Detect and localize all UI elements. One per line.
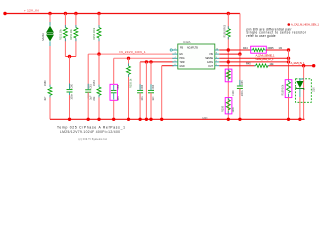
svg-text:D10: D10 — [313, 87, 316, 92]
svg-text:R155 1k: R155 1k — [130, 78, 133, 88]
wire column 162 down — [161, 66, 163, 120]
node sense/pin10 — [227, 48, 230, 51]
svg-text:R152 10k: R152 10k — [70, 29, 73, 40]
svg-text:GND: GND — [180, 66, 185, 68]
capacitor C61 — [85, 84, 91, 99]
svg-text:R153 100k: R153 100k — [93, 27, 96, 40]
node diode bottom at bus — [298, 118, 301, 121]
wire divider column 99 — [98, 14, 100, 28]
svg-text:+ 12V_IN: + 12V_IN — [24, 8, 39, 12]
svg-text:C61: C61 — [89, 84, 92, 89]
resistor R152 — [74, 28, 78, 39]
svg-text:PRG: PRG — [180, 58, 185, 60]
svg-text:1k00: 1k00 — [232, 106, 235, 112]
node divider tap — [97, 52, 100, 55]
wire pin8 row — [219, 53, 240, 55]
resistor R160 — [48, 87, 52, 95]
svg-text:R44: R44 — [243, 47, 248, 50]
svg-text:1uF: 1uF — [89, 95, 92, 100]
capacitor C60 — [67, 84, 73, 99]
svg-text:C60: C60 — [71, 83, 74, 88]
resistor R158 box2 (highlighted) — [225, 98, 232, 114]
svg-text:VIN: VIN — [209, 54, 213, 56]
node pin7 row end — [287, 60, 290, 63]
svg-text:R45: R45 — [246, 63, 251, 66]
wire pin5 row with R45 — [219, 65, 255, 67]
svg-text:SA24A: SA24A — [42, 33, 45, 41]
svg-text:refer to user guide: refer to user guide — [247, 34, 276, 38]
svg-text:Temp 025 C/Phase A RefPass_1: Temp 025 C/Phase A RefPass_1 — [57, 126, 125, 130]
node row4 col 146 — [145, 60, 148, 63]
wire diode column — [303, 66, 305, 120]
wire drop from join — [69, 57, 71, 89]
node rail left end — [3, 12, 6, 15]
node out sense top — [287, 48, 290, 51]
capacitor C63 — [137, 84, 143, 99]
wire pin7 row — [219, 61, 288, 63]
wire pin10 row — [219, 49, 251, 51]
svg-text:GND: GND — [202, 117, 208, 120]
wire R44 to node — [266, 49, 288, 51]
svg-text:C64: C64 — [152, 84, 155, 89]
resistor R155 on row3 drop — [128, 58, 130, 66]
wire row2 from corner x88 — [88, 53, 173, 55]
wire VIN column continues — [239, 54, 241, 85]
capacitor C62 (highlighted) — [110, 84, 117, 100]
svg-text:EN: EN — [180, 54, 184, 56]
svg-text:FB: FB — [180, 46, 183, 49]
node VIN — [238, 52, 241, 55]
svg-text:C62: C62 — [117, 84, 120, 89]
wire TVS column top — [49, 14, 51, 26]
IC U42 hot-swap controller — [178, 40, 215, 69]
wire column 65 — [64, 14, 66, 28]
wire row3 from cap column corner — [114, 57, 174, 59]
svg-text:OUT: OUT — [208, 66, 213, 68]
svg-text:LM25/12V79.1024F 400Ft=12/400: LM25/12V79.1024F 400Ft=12/400 — [60, 130, 120, 134]
capacitor C65 — [237, 80, 243, 95]
svg-text:R158: R158 — [221, 105, 224, 112]
wire row5 — [162, 65, 174, 67]
wire rail corner down to VIN column — [239, 14, 241, 55]
wire column 113 down — [113, 58, 115, 84]
wire column 146 down — [145, 62, 147, 119]
svg-text:R154: R154 — [93, 80, 96, 87]
svg-text:C63: C63 — [141, 84, 144, 89]
wire row4 — [140, 61, 174, 63]
node sense/pin7 — [227, 60, 230, 63]
svg-text:C65: C65 — [241, 80, 244, 85]
node diode tap — [302, 64, 305, 67]
wire ground bus — [50, 118, 305, 120]
wire pin9 row — [219, 57, 288, 59]
svg-text:GATE_24V1_GT_1: GATE_24V1_GT_1 — [256, 57, 274, 61]
svg-text:1nF: 1nF — [152, 96, 155, 101]
node join — [68, 55, 71, 58]
svg-text:IN_24V3_CON_1: IN_24V3_CON_1 — [120, 50, 146, 54]
svg-text:GATE: GATE — [207, 61, 214, 64]
wire column 140 down — [139, 62, 141, 90]
svg-text:A_CA2_M_HIGH_SEN_1: A_CA2_M_HIGH_SEN_1 — [291, 23, 320, 27]
wire column 88 down — [87, 54, 89, 89]
svg-text:10n: 10n — [141, 96, 144, 101]
transient diode D21 (bidirectional TVS) — [46, 22, 54, 46]
svg-text:100n: 100n — [241, 90, 244, 96]
svg-text:R151 10k: R151 10k — [59, 29, 62, 40]
pin stubs right — [215, 50, 220, 66]
wire join bar columns 65/76 — [65, 56, 76, 58]
svg-text:R160: R160 — [44, 80, 47, 87]
resistor R159 (highlighted) — [285, 80, 292, 98]
capacitor C64 — [148, 84, 154, 99]
svg-text:R156 0R05: R156 0R05 — [223, 24, 226, 37]
wire teal terminal stubs — [50, 25, 289, 114]
net label top right flag — [288, 23, 291, 26]
resistor R154 lower — [98, 54, 100, 87]
wire out column — [288, 50, 290, 80]
wire column 151 down — [150, 62, 152, 90]
pin stubs left — [172, 50, 178, 66]
diode D10 TVS in DNP box — [296, 79, 312, 103]
wire TVS column down — [49, 46, 51, 87]
resistor R156 sense top — [226, 29, 230, 37]
wire +12V_IN top rail — [5, 13, 240, 15]
node pin9 row end — [287, 57, 290, 60]
svg-text:R159 10k: R159 10k — [282, 84, 285, 95]
note text — [247, 27, 307, 38]
node rail junctions — [48, 12, 51, 15]
note bottom text — [57, 126, 125, 134]
svg-text:10n: 10n — [117, 96, 120, 101]
resistor R151 — [63, 28, 67, 39]
svg-text:SENSE: SENSE — [205, 58, 213, 60]
wire column 76 — [75, 14, 77, 28]
svg-text:U42A: U42A — [183, 40, 191, 44]
svg-text:F100: F100 — [232, 90, 235, 96]
svg-text:TMR: TMR — [180, 62, 185, 64]
svg-text:ADJ/FLTB: ADJ/FLTB — [187, 46, 198, 49]
bus junction nodes — [68, 118, 71, 121]
resistor R153 upper — [97, 28, 101, 39]
node row3/resistor — [127, 57, 130, 60]
node row end — [312, 64, 315, 67]
resistor R157 box1 (highlighted) — [225, 69, 232, 82]
node row4 col 151 — [149, 60, 152, 63]
wire to bus and bus corner — [49, 96, 51, 120]
svg-text:100n: 100n — [71, 93, 74, 99]
svg-text:(c) Orb Tr Systems Inc: (c) Orb Tr Systems Inc — [79, 138, 108, 141]
wire sense column from rail — [227, 14, 229, 29]
svg-text:4k7: 4k7 — [44, 96, 47, 101]
resistor R45 — [256, 64, 269, 68]
